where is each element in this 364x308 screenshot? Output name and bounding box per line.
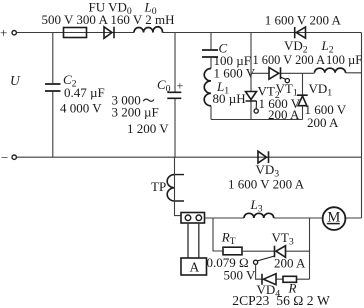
gate wire VT3 (257, 256, 274, 261)
inductor L0 (134, 27, 162, 33)
wire VT3 row (242, 250, 310, 252)
svg-text:0.47 µF: 0.47 µF (64, 85, 105, 100)
svg-text:80 µH: 80 µH (213, 91, 246, 106)
svg-text:1 600 V 200 A: 1 600 V 200 A (253, 53, 326, 67)
transformer TP winding (175, 175, 185, 201)
capacitor C0 branch wire (174, 33, 176, 158)
capacitor C0 (167, 92, 181, 98)
thyristor VT2 (246, 92, 257, 102)
svg-text:4 000 V: 4 000 V (60, 101, 102, 116)
svg-text:TP: TP (151, 179, 166, 194)
svg-text:2CP23: 2CP23 (232, 293, 269, 308)
svg-text:100 µF: 100 µF (326, 53, 362, 67)
svg-text:200 A: 200 A (274, 256, 306, 271)
diode VD0 (104, 27, 114, 39)
gate terminal VT1 (285, 79, 289, 83)
capacitor C (202, 50, 218, 57)
wire right vertical (361, 33, 363, 219)
svg-text:+: + (177, 79, 184, 93)
wire RT branch (213, 218, 223, 251)
svg-text:3 200 µF: 3 200 µF (112, 105, 159, 120)
wire VT1 row (251, 72, 362, 75)
capacitor C2 (45, 84, 61, 91)
svg-text:200 A: 200 A (307, 115, 339, 130)
inductor L1 (204, 69, 211, 106)
svg-text:VT1: VT1 (276, 81, 298, 99)
svg-text:1 600 V 200 A: 1 600 V 200 A (265, 13, 342, 28)
thyristor VT2 branch wire (250, 33, 252, 120)
motor M (323, 207, 346, 230)
diode VD1 branch wire (302, 73, 304, 119)
wire motor row (205, 217, 362, 219)
svg-text:500 V: 500 V (224, 268, 257, 283)
capacitor C2 branch wire (52, 33, 54, 158)
thyristor VT3 (275, 246, 286, 257)
ammeter A box (181, 258, 207, 275)
svg-text:VT3: VT3 (272, 230, 294, 248)
thyristor VT1 (269, 67, 281, 79)
fuse FU (64, 28, 87, 38)
wire top bus (17, 32, 362, 34)
svg-text:1 600 V 200 A: 1 600 V 200 A (228, 177, 305, 192)
svg-text:VD1: VD1 (309, 81, 333, 99)
wire VT3/VD4 branch vertical (309, 218, 311, 279)
gate wire VT2 (255, 101, 257, 109)
svg-text:U: U (10, 73, 21, 88)
svg-text:A: A (190, 260, 200, 275)
svg-text:−: − (1, 150, 8, 165)
svg-text:1 200 V: 1 200 V (127, 121, 169, 136)
diode VD1 (297, 95, 308, 106)
gate terminal VT2 (254, 109, 258, 113)
gate wire VT1 (281, 77, 286, 79)
gate terminal VT3 (254, 260, 258, 264)
capacitor C branch wire (210, 33, 212, 120)
wire commutation bottom (211, 119, 303, 121)
wires to ammeter (188, 223, 199, 258)
svg-text:56 Ω 2 W: 56 Ω 2 W (276, 293, 330, 308)
svg-text:C0: C0 (157, 77, 171, 95)
shunt connector box (181, 213, 205, 224)
shunt terminal circles (185, 215, 191, 221)
wire TP vertical (175, 157, 182, 215)
svg-text:RT: RT (221, 230, 236, 248)
svg-text:200 A: 200 A (268, 107, 300, 122)
svg-text:+: + (0, 25, 7, 40)
wire bottom bus (17, 156, 362, 158)
inductor L3 (244, 213, 274, 218)
resistor R (283, 276, 297, 282)
diode VD4 (262, 274, 276, 285)
inductor L2 (315, 68, 346, 73)
diode VD2 (295, 27, 306, 38)
svg-text:500 V 300 A 160 V 2 mH: 500 V 300 A 160 V 2 mH (42, 12, 175, 27)
wire VD4 row (256, 264, 310, 279)
diode VD3 (258, 151, 269, 163)
resistor RT (223, 247, 242, 255)
svg-text:L3: L3 (250, 197, 263, 215)
